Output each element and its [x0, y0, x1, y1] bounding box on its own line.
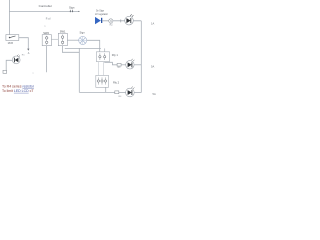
- lamp Sign: [79, 36, 87, 44]
- diode D1 (blue): [95, 17, 102, 24]
- wire LED1 to right bus: [133, 20, 141, 22]
- wire SW1 pin to left bus: [62, 46, 79, 53]
- wire SW1 to relay feed: [65, 47, 101, 49]
- LED D4: [126, 87, 135, 97]
- wire controller drop vertical: [8, 0, 10, 35]
- svg-text:LV regulator: LV regulator: [95, 13, 108, 16]
- LED D5 (left): [12, 55, 20, 64]
- svg-text:5A: 5A: [151, 64, 154, 68]
- svg-text:SW2: SW2: [43, 31, 49, 35]
- LED D3: [126, 59, 135, 69]
- wire R5 to LED2: [121, 64, 125, 66]
- svg-text:Sign: Sign: [69, 6, 75, 10]
- wire breaker to arrow: [19, 38, 29, 49]
- wire SW1 to lamp: [67, 39, 78, 41]
- svg-text:R ctl: R ctl: [46, 18, 51, 21]
- breaker SW0 box: [6, 35, 19, 41]
- svg-text:SW1: SW1: [60, 30, 66, 34]
- switch SW2: [42, 35, 51, 46]
- relay Rly1 coil box: [96, 52, 109, 62]
- wire bottom rail: [79, 91, 115, 93]
- resistor R5: [117, 64, 121, 67]
- svg-text:Rly 1: Rly 1: [112, 53, 119, 57]
- svg-text:Sign: Sign: [80, 31, 86, 35]
- node Sign stubs: [69, 10, 71, 12]
- relay Rly2 coil box: [96, 75, 109, 87]
- wire LED5 left leg: [6, 60, 12, 70]
- wire lamp to junction: [87, 40, 100, 52]
- switch SW1: [58, 33, 67, 45]
- wire D1 to R2: [102, 20, 108, 22]
- wire R2 bottom pin to rail: [105, 87, 107, 92]
- wire SW2 pin down: [45, 46, 47, 73]
- resistor R4: [115, 91, 119, 94]
- tick on wire: [120, 19, 122, 22]
- wire LED3 to right bus: [134, 92, 141, 94]
- wire LED2 to right bus: [134, 64, 141, 66]
- svg-text:To R4 series resistor: To R4 series resistor: [2, 84, 35, 88]
- svg-text:Controller: Controller: [39, 4, 52, 8]
- resistor R2 (lamp symbol): [109, 19, 113, 23]
- wire R2 to LED1: [113, 20, 125, 22]
- svg-text:To limit LED LCD cT: To limit LED LCD cT: [2, 89, 34, 93]
- wire R1 tap to R5: [105, 62, 117, 65]
- svg-text:MCB: MCB: [8, 42, 14, 45]
- svg-text:5A: 5A: [153, 92, 156, 96]
- wire right bus: [140, 21, 142, 93]
- LED D2: [125, 14, 134, 25]
- arrow terminal A: [27, 49, 29, 51]
- svg-text:1A: 1A: [151, 21, 154, 25]
- svg-text:Rly 2: Rly 2: [113, 80, 120, 84]
- wire R1 top pins: [104, 48, 106, 51]
- terminal plug: [3, 70, 7, 73]
- wire R4 to LED3: [119, 91, 126, 93]
- wire left bus vertical: [78, 48, 80, 92]
- wire R1 to R2 pins: [98, 62, 100, 76]
- wire top horizontal bus: [9, 10, 79, 12]
- wire SW2 to SW1: [51, 38, 58, 40]
